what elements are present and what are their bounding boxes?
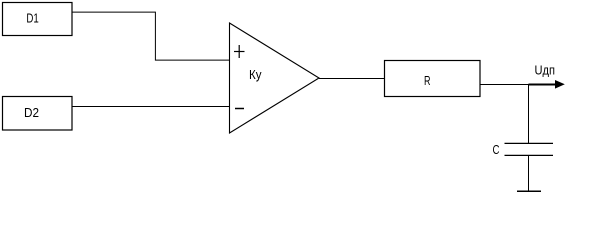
block D1 — [3, 3, 73, 36]
output arrow Uдп — [529, 80, 565, 89]
wire capacitor to ground — [528, 156, 530, 192]
capacitor C plates — [505, 143, 554, 155]
svg-text:D2: D2 — [24, 105, 39, 120]
ground — [517, 190, 541, 192]
wire op-amp output to R — [319, 78, 384, 80]
wire D2 to op-amp inverting input — [72, 106, 229, 108]
resistor R block — [385, 61, 481, 97]
op-amp plus input symbol — [234, 45, 245, 58]
svg-text:C: C — [493, 142, 500, 157]
block D2 — [3, 97, 73, 131]
svg-text:Uдп: Uдп — [535, 63, 556, 77]
svg-text:Ку: Ку — [249, 67, 262, 82]
op-amp minus input symbol — [235, 108, 244, 110]
op-amp U1 triangle — [230, 23, 320, 133]
svg-text:D1: D1 — [26, 10, 38, 25]
wire node down to capacitor — [528, 84, 530, 143]
wire D1 to op-amp noninverting input — [72, 12, 229, 60]
wire R to output node — [480, 84, 529, 86]
svg-text:R: R — [424, 73, 431, 88]
